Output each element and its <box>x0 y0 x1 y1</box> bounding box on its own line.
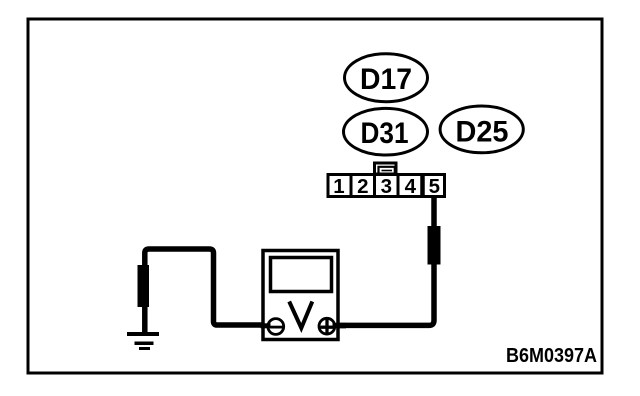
svg-text:1: 1 <box>333 175 344 198</box>
connector locking tab inner line <box>382 170 393 172</box>
voltmeter plus terminal <box>319 318 335 334</box>
voltmeter V mark <box>289 302 312 329</box>
svg-text:3: 3 <box>381 175 392 198</box>
connector D25 body <box>328 175 445 197</box>
voltmeter display <box>271 258 332 292</box>
svg-text:2: 2 <box>357 175 368 198</box>
connector label D25 <box>440 106 523 153</box>
wire stub from plus terminal <box>333 323 347 329</box>
svg-text:D17: D17 <box>360 63 412 96</box>
wire stub into minus terminal <box>261 323 271 328</box>
svg-text:5: 5 <box>429 175 440 198</box>
connector locking tab outer <box>375 163 397 174</box>
wire: ground up, across, down to voltmeter minus terminal <box>145 249 268 333</box>
connector label D17 <box>345 54 428 102</box>
connector locking tab inner <box>379 167 395 173</box>
voltmeter body <box>263 251 338 340</box>
divider pin2/3 <box>373 173 376 197</box>
wire: pin5 down to voltmeter plus terminal <box>334 197 434 325</box>
divider pin1/2 <box>350 173 353 197</box>
svg-text:4: 4 <box>405 175 417 198</box>
test probe on pin5 wire <box>428 226 441 265</box>
connector label D31 <box>344 108 428 155</box>
test probe on ground wire <box>138 265 150 307</box>
divider pin3/4 <box>397 173 400 197</box>
ground symbol <box>127 332 159 350</box>
divider pin4/5 <box>420 173 425 197</box>
svg-text:B6M0397A: B6M0397A <box>506 345 597 367</box>
voltmeter minus terminal <box>268 319 284 335</box>
svg-text:D25: D25 <box>456 116 509 149</box>
svg-text:D31: D31 <box>361 117 409 150</box>
